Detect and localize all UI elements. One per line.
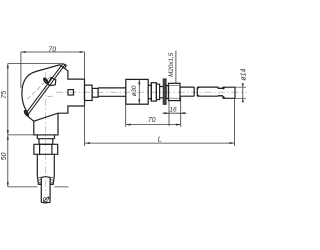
weld hatch left xyxy=(38,177,42,184)
dimension &#248;14 xyxy=(242,84,244,101)
vertical centerline of probe xyxy=(45,72,47,195)
probe neck horizontal xyxy=(218,87,223,96)
inner probe tube xyxy=(41,177,50,203)
head lid (tilted cover, double line) xyxy=(25,64,63,115)
weld collar right wall xyxy=(50,177,54,185)
outer tube xyxy=(37,154,54,176)
svg-text:50: 50 xyxy=(1,153,8,161)
neck below head xyxy=(34,113,58,135)
lid screw head xyxy=(42,76,50,84)
probe diameter arrows xyxy=(41,201,50,203)
interior dash detail xyxy=(48,95,53,98)
connection head body xyxy=(22,65,85,121)
fitting neck 2 xyxy=(160,87,164,98)
thread minor lines xyxy=(169,86,181,99)
fitting neck 1 xyxy=(148,83,151,101)
fitting block B xyxy=(156,84,159,99)
dimension 75 and 50 shared line xyxy=(8,64,69,188)
gland terminal square inside boss xyxy=(68,90,74,95)
weld hatch right xyxy=(50,177,54,184)
fitting body &#248;30 xyxy=(126,79,148,104)
dimension &#248;30 xyxy=(138,79,140,104)
svg-text:ø30: ø30 xyxy=(131,85,138,96)
cable gland nut xyxy=(85,85,93,100)
weld collar left wall xyxy=(37,177,41,185)
flange collar xyxy=(166,86,168,99)
hex nut xyxy=(34,144,58,154)
dimension 70 top xyxy=(21,52,85,88)
fitting block A xyxy=(151,83,156,101)
horizontal centerline of fitting axis xyxy=(56,91,247,93)
tube from gland to fitting xyxy=(98,88,126,96)
svg-text:L: L xyxy=(158,135,162,144)
lid axis centerline xyxy=(28,77,51,100)
probe tip horizontal xyxy=(223,87,235,98)
dimension 16 xyxy=(162,101,186,126)
dimension 70 bottom xyxy=(126,96,181,127)
dimension L xyxy=(85,98,235,146)
svg-text:16: 16 xyxy=(169,107,177,114)
probe tip bottom edge xyxy=(41,202,50,204)
probe diameter label xyxy=(42,196,49,203)
svg-text:70: 70 xyxy=(148,117,156,124)
tube after thread xyxy=(180,87,194,96)
tip edge extensions xyxy=(236,87,247,98)
svg-text:ø14: ø14 xyxy=(240,68,247,80)
neck lip xyxy=(37,135,54,139)
svg-text:M20x1,5: M20x1,5 xyxy=(168,52,175,77)
neck collar xyxy=(39,139,53,145)
lid top rim cap xyxy=(63,64,66,68)
svg-text:70: 70 xyxy=(48,47,56,54)
tube after break xyxy=(197,87,218,96)
lid bottom tab xyxy=(23,109,30,117)
lid screw bracket xyxy=(48,78,56,86)
thread label M20x1,5 xyxy=(175,51,177,84)
cable gland step xyxy=(92,88,98,97)
svg-text:75: 75 xyxy=(1,91,8,99)
flange xyxy=(163,79,166,105)
thread M20 xyxy=(169,83,181,100)
